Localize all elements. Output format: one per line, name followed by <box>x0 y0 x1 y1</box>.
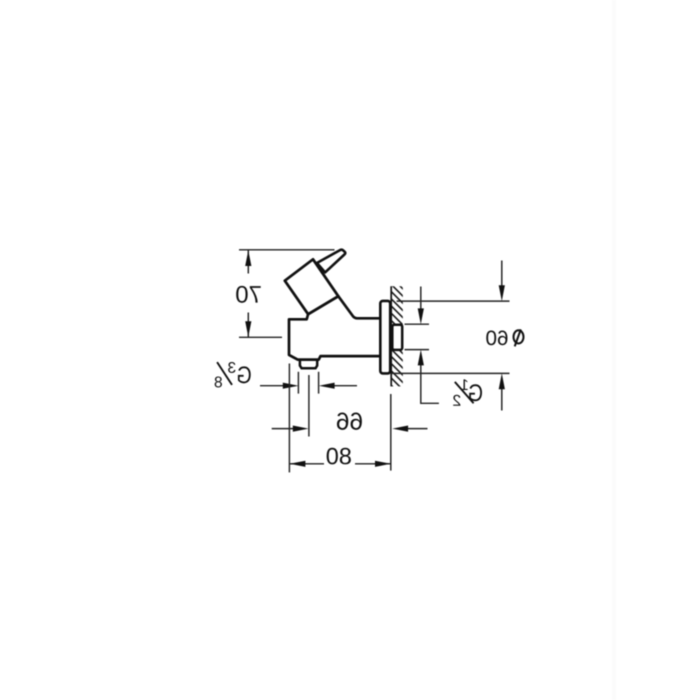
dim 70 arrowheads <box>245 250 251 337</box>
dim G1/2 extension stubs and leader <box>405 287 439 404</box>
dim phi60 text 60 <box>486 331 507 346</box>
dim 80 extension and dim lines <box>289 364 390 473</box>
dim 80 text <box>327 448 351 465</box>
faint scanner artifact line <box>612 0 616 700</box>
dim 70 extension lines and dim line <box>239 250 335 337</box>
dim phi60 diameter symbol <box>514 330 524 343</box>
handle pin rod <box>317 250 345 273</box>
dim phi60 extension lines <box>391 261 510 411</box>
dim 80 arrowheads <box>290 461 391 467</box>
dim G3/8 arrowheads <box>283 383 335 389</box>
wall flange escutcheon <box>380 301 390 374</box>
dim G3/8 extension lines <box>260 372 357 394</box>
dim 66 text <box>337 412 362 429</box>
handle cylinder <box>285 259 339 314</box>
dim 70 text <box>236 286 261 303</box>
wall hatching <box>390 276 405 406</box>
dim G1/2 arrowheads <box>418 308 424 365</box>
mirrored technical drawing group <box>215 250 524 473</box>
label G3/8 <box>215 362 251 387</box>
dim 66 arrowheads <box>293 426 408 432</box>
dim 66 extension and dim lines <box>272 375 428 437</box>
label G1/2 <box>453 379 482 405</box>
wall surface line <box>390 286 392 386</box>
spout nozzle G3/8 outlet <box>300 360 317 368</box>
G1/2 inlet pipe embedded in wall <box>392 325 402 350</box>
faucet body <box>289 296 380 359</box>
dim phi60 arrowheads <box>499 285 505 389</box>
